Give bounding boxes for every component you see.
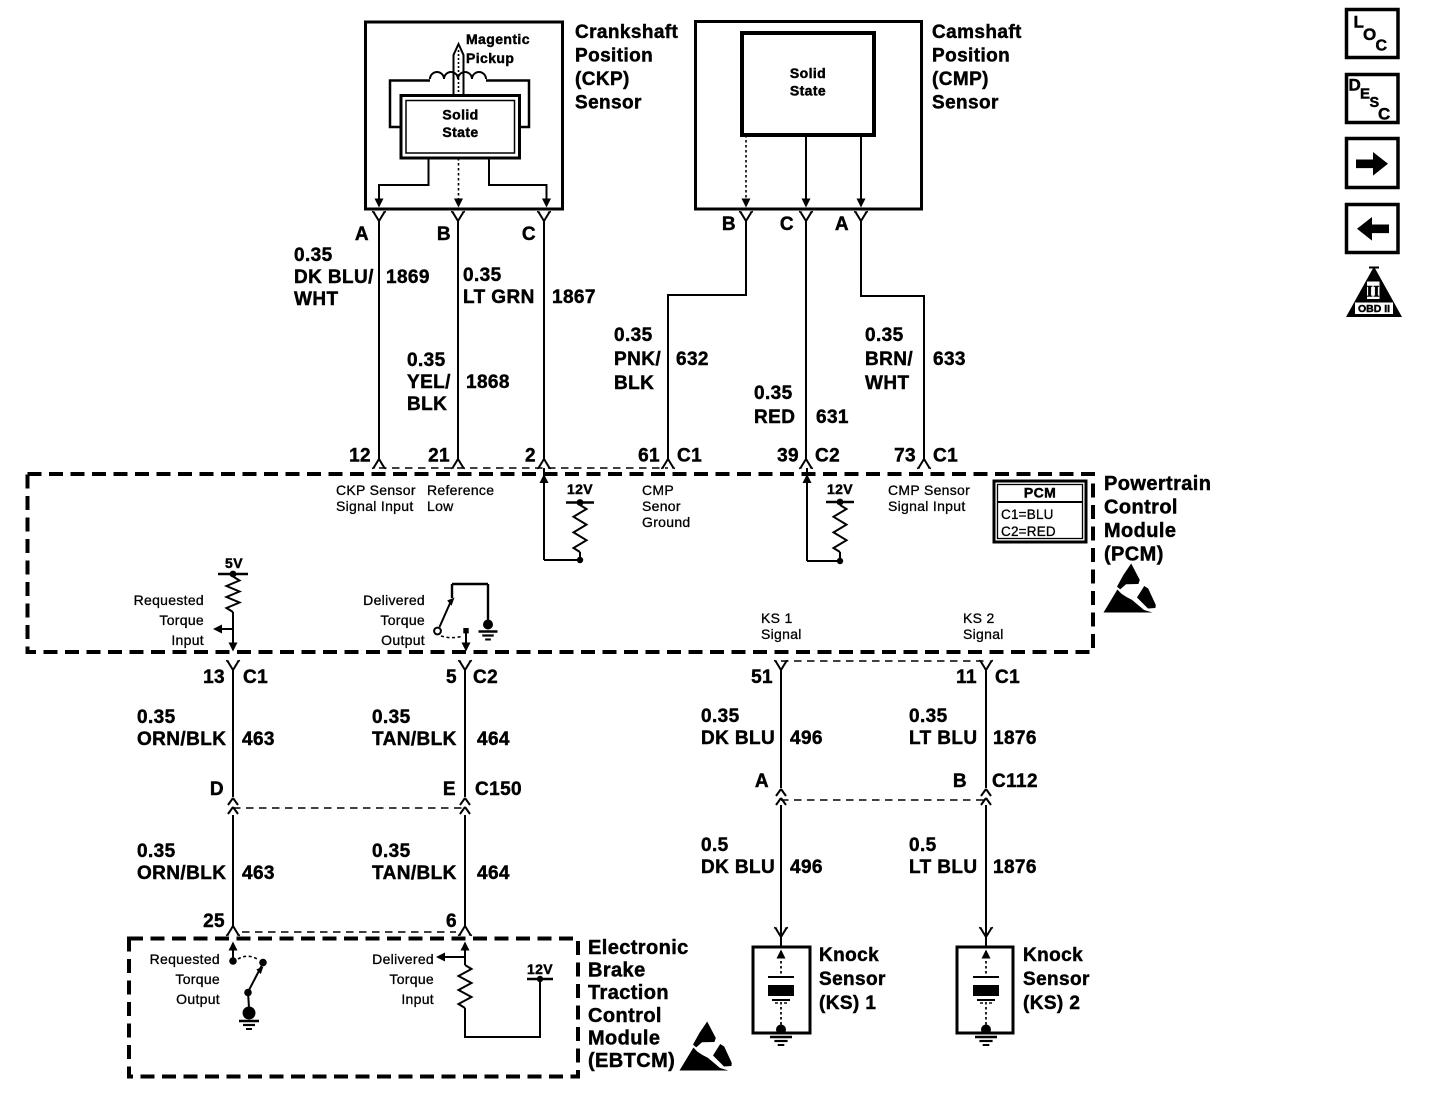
svg-text:12V: 12V bbox=[567, 481, 593, 497]
svg-text:496: 496 bbox=[790, 728, 823, 749]
svg-text:CMP Sensor: CMP Sensor bbox=[888, 482, 970, 498]
svg-text:73: 73 bbox=[894, 446, 916, 467]
svg-text:DK BLU: DK BLU bbox=[701, 857, 775, 878]
svg-text:6: 6 bbox=[446, 911, 457, 932]
svg-text:C: C bbox=[1376, 38, 1388, 55]
svg-text:Solid: Solid bbox=[442, 107, 478, 123]
svg-text:0.35: 0.35 bbox=[754, 383, 793, 404]
svg-text:0.35: 0.35 bbox=[614, 325, 653, 346]
svg-text:State: State bbox=[790, 83, 826, 99]
svg-text:51: 51 bbox=[751, 667, 773, 688]
svg-text:BLK: BLK bbox=[407, 394, 447, 415]
svg-text:0.35: 0.35 bbox=[865, 325, 904, 346]
svg-text:Low: Low bbox=[427, 498, 454, 514]
svg-text:CKP Sensor: CKP Sensor bbox=[336, 482, 416, 498]
svg-text:Module: Module bbox=[1104, 520, 1176, 542]
svg-text:0.35: 0.35 bbox=[463, 265, 502, 286]
svg-text:0.35: 0.35 bbox=[372, 707, 411, 728]
svg-text:Camshaft: Camshaft bbox=[932, 22, 1022, 43]
svg-text:Crankshaft: Crankshaft bbox=[575, 22, 679, 43]
svg-text:BRN/: BRN/ bbox=[865, 349, 913, 370]
svg-text:Sensor: Sensor bbox=[932, 93, 999, 114]
svg-text:632: 632 bbox=[676, 349, 709, 370]
svg-text:Senor: Senor bbox=[642, 498, 681, 514]
svg-text:A: A bbox=[755, 771, 769, 792]
svg-text:OBD II: OBD II bbox=[1358, 303, 1390, 315]
svg-text:A: A bbox=[355, 224, 369, 245]
svg-text:13: 13 bbox=[203, 667, 225, 688]
svg-text:C2: C2 bbox=[815, 446, 840, 467]
svg-text:DK BLU: DK BLU bbox=[701, 728, 775, 749]
svg-text:0.35: 0.35 bbox=[294, 245, 333, 266]
svg-text:(CKP): (CKP) bbox=[575, 69, 630, 90]
svg-text:TAN/BLK: TAN/BLK bbox=[372, 729, 457, 750]
svg-text:463: 463 bbox=[242, 729, 275, 750]
svg-text:KS 1: KS 1 bbox=[761, 610, 793, 626]
svg-text:0.35: 0.35 bbox=[372, 841, 411, 862]
svg-text:C: C bbox=[780, 214, 794, 235]
svg-text:0.35: 0.35 bbox=[909, 706, 948, 727]
svg-text:C1: C1 bbox=[677, 446, 702, 467]
svg-text:Output: Output bbox=[176, 991, 220, 1007]
svg-text:KS 2: KS 2 bbox=[963, 610, 995, 626]
svg-text:PCM: PCM bbox=[1024, 485, 1056, 501]
svg-text:Powertrain: Powertrain bbox=[1104, 473, 1211, 495]
svg-text:Delivered: Delivered bbox=[363, 592, 425, 608]
svg-text:Brake: Brake bbox=[588, 960, 646, 982]
svg-text:C: C bbox=[1378, 105, 1391, 124]
svg-text:Signal Input: Signal Input bbox=[888, 498, 966, 514]
svg-text:5V: 5V bbox=[225, 555, 243, 571]
svg-text:464: 464 bbox=[477, 729, 510, 750]
svg-text:BLK: BLK bbox=[614, 373, 654, 394]
svg-text:5: 5 bbox=[446, 667, 457, 688]
svg-text:D: D bbox=[210, 779, 224, 800]
svg-text:Signal: Signal bbox=[963, 626, 1004, 642]
svg-text:Position: Position bbox=[932, 46, 1010, 67]
svg-text:Sensor: Sensor bbox=[819, 969, 886, 990]
svg-text:1876: 1876 bbox=[993, 728, 1037, 749]
svg-text:Delivered: Delivered bbox=[372, 951, 434, 967]
svg-text:1868: 1868 bbox=[466, 372, 510, 393]
svg-text:II: II bbox=[1366, 284, 1379, 301]
svg-text:Position: Position bbox=[575, 46, 653, 67]
svg-text:TAN/BLK: TAN/BLK bbox=[372, 863, 457, 884]
svg-text:ORN/BLK: ORN/BLK bbox=[137, 863, 226, 884]
svg-text:B: B bbox=[722, 214, 736, 235]
svg-text:463: 463 bbox=[242, 863, 275, 884]
svg-text:Control: Control bbox=[1104, 497, 1178, 519]
svg-text:C: C bbox=[522, 224, 536, 245]
svg-text:LT GRN: LT GRN bbox=[463, 287, 535, 308]
svg-text:B: B bbox=[437, 224, 451, 245]
svg-text:61: 61 bbox=[638, 446, 660, 467]
svg-text:LT BLU: LT BLU bbox=[909, 728, 978, 749]
svg-text:Input: Input bbox=[401, 991, 434, 1007]
svg-text:633: 633 bbox=[933, 349, 966, 370]
svg-text:C1: C1 bbox=[995, 667, 1020, 688]
svg-text:WHT: WHT bbox=[865, 373, 909, 394]
svg-text:(CMP): (CMP) bbox=[932, 69, 989, 90]
svg-text:496: 496 bbox=[790, 857, 823, 878]
svg-text:Ground: Ground bbox=[642, 514, 691, 530]
svg-text:C1: C1 bbox=[933, 446, 958, 467]
svg-text:1867: 1867 bbox=[552, 287, 596, 308]
svg-text:0.35: 0.35 bbox=[137, 707, 176, 728]
svg-text:C1=BLU: C1=BLU bbox=[1001, 507, 1054, 522]
svg-text:Pickup: Pickup bbox=[466, 50, 514, 66]
svg-text:1876: 1876 bbox=[993, 857, 1037, 878]
svg-text:Control: Control bbox=[588, 1005, 662, 1027]
svg-text:WHT: WHT bbox=[294, 289, 338, 310]
svg-text:Sensor: Sensor bbox=[1023, 969, 1090, 990]
svg-text:LT BLU: LT BLU bbox=[909, 857, 978, 878]
svg-text:Signal: Signal bbox=[761, 626, 802, 642]
svg-text:RED: RED bbox=[754, 407, 795, 428]
svg-text:C2=RED: C2=RED bbox=[1001, 524, 1056, 539]
svg-text:Knock: Knock bbox=[1023, 945, 1083, 966]
svg-text:Electronic: Electronic bbox=[588, 937, 689, 959]
svg-text:Torque: Torque bbox=[380, 612, 425, 628]
svg-text:C150: C150 bbox=[475, 779, 522, 800]
svg-text:39: 39 bbox=[777, 446, 799, 467]
svg-text:(PCM): (PCM) bbox=[1104, 544, 1164, 566]
svg-text:YEL/: YEL/ bbox=[407, 372, 451, 393]
svg-text:C112: C112 bbox=[992, 771, 1038, 792]
svg-text:Signal Input: Signal Input bbox=[336, 498, 414, 514]
svg-text:0.35: 0.35 bbox=[701, 706, 740, 727]
svg-text:CMP: CMP bbox=[642, 482, 674, 498]
svg-text:DK BLU/: DK BLU/ bbox=[294, 267, 374, 288]
svg-text:Torque: Torque bbox=[175, 971, 220, 987]
svg-text:Requested: Requested bbox=[134, 592, 204, 608]
svg-text:B: B bbox=[953, 771, 967, 792]
svg-text:11: 11 bbox=[956, 667, 977, 688]
svg-text:Input: Input bbox=[171, 632, 204, 648]
svg-text:631: 631 bbox=[816, 407, 849, 428]
svg-text:Requested: Requested bbox=[150, 951, 220, 967]
svg-text:464: 464 bbox=[477, 863, 510, 884]
svg-text:0.5: 0.5 bbox=[909, 835, 937, 856]
svg-text:2: 2 bbox=[525, 446, 536, 467]
svg-text:State: State bbox=[442, 124, 478, 140]
svg-text:12V: 12V bbox=[527, 961, 553, 977]
svg-text:21: 21 bbox=[428, 446, 450, 467]
svg-text:0.35: 0.35 bbox=[407, 350, 446, 371]
svg-text:Output: Output bbox=[381, 632, 425, 648]
svg-text:Traction: Traction bbox=[588, 982, 669, 1004]
svg-text:0.5: 0.5 bbox=[701, 835, 729, 856]
svg-text:Solid: Solid bbox=[790, 65, 826, 81]
svg-text:1869: 1869 bbox=[386, 267, 430, 288]
svg-text:PNK/: PNK/ bbox=[614, 349, 661, 370]
svg-text:C2: C2 bbox=[473, 667, 498, 688]
svg-text:Reference: Reference bbox=[427, 482, 494, 498]
svg-text:Sensor: Sensor bbox=[575, 93, 642, 114]
svg-text:(KS) 2: (KS) 2 bbox=[1023, 993, 1080, 1014]
svg-text:Torque: Torque bbox=[389, 971, 434, 987]
svg-text:ORN/BLK: ORN/BLK bbox=[137, 729, 226, 750]
svg-text:C1: C1 bbox=[243, 667, 268, 688]
svg-text:12: 12 bbox=[349, 446, 371, 467]
svg-text:A: A bbox=[835, 214, 849, 235]
svg-text:E: E bbox=[443, 779, 456, 800]
svg-text:Knock: Knock bbox=[819, 945, 879, 966]
svg-text:12V: 12V bbox=[827, 481, 853, 497]
svg-text:0.35: 0.35 bbox=[137, 841, 176, 862]
svg-text:Magentic: Magentic bbox=[466, 31, 530, 47]
svg-text:(KS) 1: (KS) 1 bbox=[819, 993, 876, 1014]
svg-text:25: 25 bbox=[203, 911, 225, 932]
svg-text:(EBTCM): (EBTCM) bbox=[588, 1050, 675, 1072]
svg-text:Torque: Torque bbox=[159, 612, 204, 628]
svg-text:Module: Module bbox=[588, 1027, 660, 1049]
